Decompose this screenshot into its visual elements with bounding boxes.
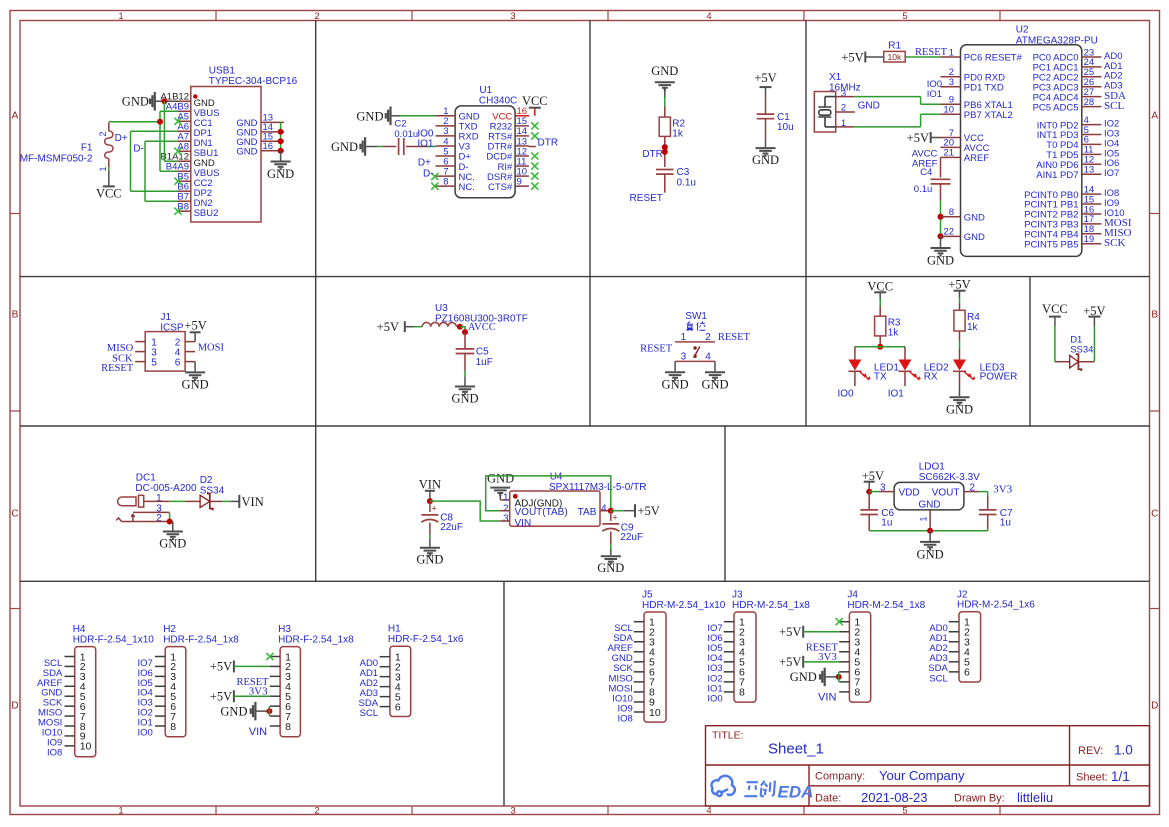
svg-text:2: 2 [705, 332, 711, 343]
svg-text:AIN1 PD7: AIN1 PD7 [1036, 170, 1078, 181]
connector DC1 DC-005-A200 [116, 472, 197, 524]
svg-text:RESET: RESET [630, 193, 663, 204]
svg-text:10k: 10k [888, 52, 902, 62]
nodes AD0..SCL (H1) [359, 658, 379, 719]
svg-text:U4: U4 [550, 471, 563, 482]
svg-text:D+: D+ [115, 133, 128, 144]
svg-text:SS34: SS34 [1070, 345, 1093, 356]
power flag +5V (pin 5) + node 3V3 [779, 651, 839, 669]
svg-text:1: 1 [98, 167, 108, 172]
ground flag GND (below C1) [752, 140, 779, 167]
no-connect X (pin 1) [836, 618, 843, 625]
resistor R4 1k [954, 310, 965, 331]
svg-text:IO0: IO0 [707, 693, 722, 704]
svg-text:C4: C4 [920, 167, 932, 178]
svg-text:Sheet:: Sheet: [1076, 772, 1108, 784]
svg-text:NC.: NC. [459, 182, 475, 193]
LED LED3 POWER [953, 360, 1017, 387]
power flag VIN (C8) [419, 477, 441, 501]
svg-text:1u: 1u [1000, 518, 1011, 529]
regulator U4 SPX1117M3-L-5-0/TR [499, 471, 646, 529]
ground flag GND (USB1 left) [122, 92, 178, 111]
svg-text:6: 6 [964, 667, 970, 679]
regulator LDO1 SC662K-3.3V [879, 461, 980, 531]
power flag +5V (above C1) [754, 71, 776, 95]
svg-text:TYPEC-304-BCP16: TYPEC-304-BCP16 [209, 76, 298, 87]
svg-text:VOUT(TAB): VOUT(TAB) [515, 507, 568, 518]
wire D+ net (DP1-DP2) [115, 131, 178, 191]
wire R2 to C3 + junctions DTR [662, 136, 668, 167]
svg-text:1k: 1k [672, 128, 684, 139]
svg-text:U2: U2 [1016, 24, 1029, 35]
capacitor C5 1uF [456, 332, 493, 370]
logo 立创EDA [712, 776, 814, 802]
connector J1 ICSP [135, 312, 195, 371]
svg-text:CH340C: CH340C [479, 96, 517, 107]
svg-text:DTR: DTR [538, 137, 559, 148]
svg-text:8: 8 [949, 207, 954, 218]
svg-text:+: + [612, 513, 617, 523]
svg-text:+5V: +5V [948, 278, 970, 292]
svg-text:5: 5 [902, 11, 907, 22]
connector H3 HDR-F-2.54_1x8 [270, 624, 354, 737]
svg-text:TITLE:: TITLE: [712, 730, 744, 742]
svg-text:GND: GND [331, 140, 358, 154]
wire C4/GND pins 8,22 + junctions [938, 201, 944, 240]
svg-text:GND: GND [182, 377, 209, 391]
svg-text:3V3: 3V3 [993, 484, 1012, 496]
ground flag GND (SW1 pin 4) [701, 361, 728, 391]
svg-text:D: D [1151, 701, 1158, 712]
connector J5 HDR-M-2.54_1x10 [634, 590, 726, 723]
svg-text:PD1 TXD: PD1 TXD [964, 83, 1004, 94]
svg-text:GND: GND [752, 153, 779, 167]
svg-text:REV:: REV: [1078, 745, 1103, 757]
svg-text:1: 1 [503, 492, 509, 503]
svg-text:1uF: 1uF [476, 357, 493, 368]
power flag +5V (U4 out) [611, 504, 660, 518]
svg-text:POWER: POWER [980, 372, 1018, 383]
svg-text:GND: GND [927, 253, 954, 267]
capacitor C9 22uF [602, 511, 643, 544]
svg-text:+5V: +5V [779, 625, 801, 639]
svg-text:6: 6 [395, 701, 401, 713]
svg-text:AVCC: AVCC [468, 322, 496, 333]
svg-text:CTS#: CTS# [488, 182, 513, 193]
wire U4 VOUT loop to TAB + junction [486, 476, 614, 514]
power flag VCC (below F1) [96, 167, 122, 201]
svg-text:Sheet_1: Sheet_1 [768, 741, 824, 758]
svg-text:VIN: VIN [515, 518, 532, 529]
svg-text:B: B [12, 310, 19, 321]
svg-text:5: 5 [151, 357, 157, 368]
svg-text:DC-005-A200: DC-005-A200 [135, 483, 197, 494]
svg-text:VCC: VCC [96, 187, 122, 201]
svg-text:+5V: +5V [841, 50, 863, 64]
svg-text:PB7 XTAL2: PB7 XTAL2 [964, 110, 1013, 121]
ground flag GND (U4 pin1) [487, 472, 514, 500]
svg-text:4: 4 [706, 806, 711, 817]
svg-text:D: D [11, 701, 18, 712]
svg-text:RESET: RESET [101, 363, 134, 374]
svg-text:DTR: DTR [642, 149, 663, 160]
svg-text:0.1u: 0.1u [677, 177, 696, 188]
svg-text:IO1: IO1 [927, 89, 942, 100]
capacitor C3 0.1u [656, 167, 696, 193]
wire/junctions U3 out to AVCC/C5 [457, 324, 468, 335]
svg-text:1: 1 [118, 11, 123, 22]
node DTR (U1 pin 13) [529, 137, 558, 148]
ground flag GND (USB1 right) [267, 151, 294, 181]
ground flag GND (C2 left) [331, 137, 377, 156]
svg-text:IO8: IO8 [47, 747, 62, 758]
wire C2 to U1 pin 4 (V3) [428, 146, 436, 148]
svg-text:GND: GND [651, 64, 678, 78]
svg-text:PCINT5 PB5: PCINT5 PB5 [1024, 239, 1078, 250]
svg-text:2: 2 [314, 806, 319, 817]
svg-text:RESET: RESET [640, 344, 673, 355]
connector H1 HDR-F-2.54_1x6 [380, 624, 464, 717]
ground flag GND (U2) [927, 236, 954, 267]
svg-text:D-: D- [133, 144, 144, 155]
power flag +5V (pin 2) [210, 660, 270, 674]
wire VCC to D1 anode [1055, 327, 1070, 362]
ground flag GND (C8) [416, 535, 443, 567]
capacitor C8 22uF [421, 501, 463, 534]
capacitor C1 10u [757, 95, 794, 140]
svg-text:C: C [11, 509, 18, 520]
svg-text:HDR-F-2.54_1x8: HDR-F-2.54_1x8 [163, 634, 239, 645]
svg-text:VCC: VCC [867, 279, 893, 293]
svg-text:SCK: SCK [1104, 237, 1125, 249]
power flag +5V (R4) [948, 278, 970, 297]
svg-text:1k: 1k [888, 328, 900, 339]
svg-text:GND: GND [220, 704, 247, 718]
title text [712, 730, 1133, 806]
node 3V3 (LDO out) [979, 484, 1013, 496]
svg-text:HDR-F-2.54_1x10: HDR-F-2.54_1x10 [73, 634, 155, 645]
svg-text:GND: GND [122, 94, 149, 108]
svg-text:+5V: +5V [907, 131, 929, 145]
title block [706, 726, 1150, 806]
svg-text:5: 5 [902, 806, 907, 817]
svg-text:+5V: +5V [210, 689, 232, 703]
svg-text:1u: 1u [881, 518, 892, 529]
svg-text:+5V: +5V [377, 320, 399, 334]
svg-text:1: 1 [919, 516, 929, 521]
svg-text:PC6 RESET#: PC6 RESET# [964, 53, 1023, 64]
svg-text:IO0: IO0 [137, 727, 152, 738]
power flag +5V (U2 VCC pin 7) [907, 131, 941, 145]
svg-text:HDR-F-2.54_1x6: HDR-F-2.54_1x6 [388, 634, 464, 645]
svg-text:SCL: SCL [1104, 100, 1124, 112]
svg-text:2: 2 [98, 132, 108, 137]
svg-text:VCC: VCC [522, 94, 548, 108]
svg-text:C3: C3 [677, 167, 690, 178]
svg-text:+: + [432, 503, 437, 513]
svg-text:GND: GND [487, 472, 514, 486]
ground flag GND (C9) [597, 544, 624, 575]
svg-text:GND: GND [790, 670, 817, 684]
ground flag GND (pins 6-7) + junction [790, 668, 842, 687]
wire DC1 pin1 to D2 [170, 500, 200, 502]
svg-text:D+: D+ [418, 158, 431, 169]
svg-text:VIN: VIN [818, 692, 836, 704]
resistor R3 1k [875, 316, 886, 336]
svg-text:HDR-M-2.54_1x8: HDR-M-2.54_1x8 [847, 600, 925, 611]
diode D2 SS34 [200, 475, 225, 510]
power flag VCC (D1) [1042, 302, 1068, 326]
svg-text:10: 10 [943, 105, 954, 116]
LED LED2 RX [899, 360, 950, 387]
svg-text:Drawn By:: Drawn By: [954, 793, 1005, 805]
svg-text:VDD: VDD [899, 487, 920, 498]
svg-text:28: 28 [1084, 97, 1095, 108]
svg-text:PC5 ADC5: PC5 ADC5 [1033, 102, 1079, 113]
svg-text:16: 16 [263, 141, 274, 152]
svg-text:IO0: IO0 [838, 388, 855, 399]
svg-text:GND: GND [917, 547, 944, 561]
svg-text:VCC: VCC [1042, 302, 1068, 316]
wire VBUS net + junction (fuse to VBUS pins) [109, 111, 178, 171]
svg-text:X1: X1 [829, 72, 842, 83]
svg-text:4: 4 [601, 503, 607, 514]
svg-text:SCL: SCL [929, 673, 947, 684]
ground flag GND (J1 pin 6) [182, 362, 209, 392]
resistor R1 10k [884, 41, 906, 62]
svg-text:3: 3 [510, 11, 515, 22]
svg-text:8: 8 [854, 687, 860, 699]
LED LED1 TX [848, 360, 899, 387]
svg-text:A: A [12, 111, 19, 122]
svg-text:EDA: EDA [778, 782, 814, 801]
svg-text:IO1: IO1 [417, 138, 434, 149]
connector J3 HDR-M-2.54_1x8 [724, 590, 810, 703]
svg-text:2021-08-23: 2021-08-23 [861, 790, 928, 805]
svg-text:J1: J1 [161, 312, 172, 323]
svg-text:HDR-F-2.54_1x8: HDR-F-2.54_1x8 [278, 634, 354, 645]
svg-text:3: 3 [841, 88, 846, 99]
diode D1 SS34 [1070, 334, 1095, 371]
svg-text:RESET: RESET [718, 332, 751, 343]
svg-text:+5V: +5V [638, 504, 660, 518]
svg-text:SCL: SCL [360, 708, 378, 719]
nodes IO7..IO0 (J3) [707, 623, 722, 704]
svg-text:+5V: +5V [210, 660, 232, 674]
svg-text:littleliu: littleliu [1017, 790, 1053, 805]
svg-text:SBU2: SBU2 [194, 208, 219, 219]
power flag +5V (D1) [1083, 304, 1105, 326]
svg-text:3V3: 3V3 [249, 685, 268, 697]
svg-text:SS34: SS34 [200, 485, 225, 496]
svg-text:19: 19 [1084, 234, 1095, 245]
ground flag GND (DC1) [159, 522, 186, 551]
svg-text:GND: GND [918, 499, 940, 510]
svg-text:Date:: Date: [815, 793, 841, 805]
svg-text:8: 8 [285, 721, 291, 733]
svg-text:C2: C2 [394, 119, 406, 130]
svg-text:3V3: 3V3 [818, 651, 837, 663]
svg-text:U1: U1 [479, 85, 492, 96]
ground flag GND (SW1 pin 3) [662, 361, 689, 391]
svg-text:4: 4 [706, 11, 711, 22]
ground flag GND (C5) [451, 371, 478, 406]
svg-text:IO1: IO1 [888, 388, 905, 399]
power flag VCC (R3) [867, 279, 893, 299]
svg-text:R1: R1 [888, 41, 901, 52]
svg-text:1: 1 [118, 806, 123, 817]
svg-text:1.0: 1.0 [1114, 743, 1133, 758]
wire R4 to LED3 [959, 331, 961, 360]
svg-text:VIN: VIN [242, 495, 264, 509]
svg-text:GND: GND [964, 232, 985, 243]
svg-text:GND: GND [236, 147, 257, 158]
svg-text:1k: 1k [967, 322, 979, 333]
power flag +5V (J1 pin 2) [184, 319, 206, 342]
svg-text:DC1: DC1 [136, 472, 156, 483]
svg-text:22uF: 22uF [620, 532, 643, 543]
wire GND to R2 [664, 97, 666, 117]
svg-text:10: 10 [649, 707, 661, 719]
svg-text:GND: GND [662, 378, 689, 392]
svg-text:10: 10 [80, 741, 92, 753]
svg-text:GND: GND [946, 403, 973, 417]
svg-text:A: A [1151, 111, 1158, 122]
power flag +5V (U3) [377, 320, 414, 334]
svg-text:GND: GND [356, 109, 383, 123]
svg-text:8: 8 [739, 687, 745, 699]
wire +5V to R4 [959, 297, 961, 310]
power flag VCC (U1 pin 16) [522, 94, 548, 116]
svg-text:C: C [1151, 509, 1158, 520]
power flag +5V (pin 5) + node 3V3 [210, 685, 270, 703]
svg-text:B: B [1151, 310, 1158, 321]
wire X1 pin3 to U2 XTAL1 [836, 97, 941, 105]
svg-text:IO7: IO7 [1104, 168, 1119, 179]
switch SW1 复位 [675, 311, 715, 363]
capacitor C7 1u [979, 492, 1013, 531]
svg-text:VIN: VIN [419, 477, 441, 491]
nodes AD0..SCL (J2) [928, 623, 948, 684]
svg-text:+5V: +5V [184, 319, 206, 333]
svg-text:1: 1 [681, 332, 687, 343]
wire +5V junction to LDO pin3 [866, 489, 879, 495]
power flag +5V (LDO1) [862, 469, 884, 492]
svg-text:21: 21 [943, 148, 954, 159]
ground flag GND (LED3) [946, 386, 973, 417]
wire D- net (DN1-DN2) [133, 141, 178, 201]
ground flag GND (above R2) [651, 64, 678, 97]
svg-text:0.1u: 0.1u [914, 184, 933, 195]
nodes SCL..IO8 (J5) [607, 623, 633, 724]
power flag VIN (D2) [222, 495, 263, 509]
svg-text:GND: GND [267, 167, 294, 181]
mcu U2 ATMEGA328P-PU [941, 24, 1132, 256]
svg-text:1: 1 [949, 47, 954, 58]
connector H2 HDR-F-2.54_1x8 [155, 624, 239, 737]
svg-text:22uF: 22uF [440, 522, 463, 533]
resistor R2 1k [659, 117, 670, 136]
svg-text:SC662K-3.3V: SC662K-3.3V [919, 472, 980, 483]
svg-text:LDO1: LDO1 [919, 461, 946, 472]
wire VIN net to U4 pin3 + junction [427, 498, 500, 521]
wire LDO bottom rail + junction [869, 528, 988, 534]
wire + junctions GND (USB1 pins 13-16) [278, 122, 284, 153]
capacitor C6 1u [860, 492, 894, 531]
svg-text:SW1: SW1 [685, 311, 707, 322]
svg-text:6: 6 [175, 357, 181, 368]
wire R1 to U2 pin1, node RESET [905, 47, 947, 58]
svg-text:HDR-M-2.54_1x8: HDR-M-2.54_1x8 [732, 600, 810, 611]
svg-text:10u: 10u [777, 122, 794, 133]
connector J2 HDR-M-2.54_1x6 [949, 589, 1035, 682]
wire U2 AREF to C4 [940, 157, 942, 177]
svg-text:HDR-M-2.54_1x6: HDR-M-2.54_1x6 [957, 600, 1035, 611]
svg-text:3: 3 [949, 77, 954, 88]
ground flag GND (LDO1) [917, 531, 944, 562]
svg-text:U3: U3 [435, 303, 448, 314]
svg-text:+5V: +5V [779, 655, 801, 669]
svg-text:GND: GND [159, 537, 186, 551]
svg-text:HDR-M-2.54_1x10: HDR-M-2.54_1x10 [642, 600, 726, 611]
svg-text:TX: TX [874, 372, 887, 383]
svg-text:VOUT: VOUT [932, 487, 960, 498]
svg-text:3: 3 [503, 514, 509, 525]
svg-text:TAB: TAB [578, 507, 597, 518]
svg-text:F1: F1 [81, 142, 93, 153]
wire R3 to LED1/LED2 + junction [855, 336, 905, 360]
svg-text:2: 2 [156, 513, 162, 524]
fuse F1 MF-MSMF050-2 [20, 123, 113, 172]
svg-text:+5V: +5V [862, 469, 884, 483]
no-connect X (pin 1) [266, 653, 273, 660]
ground flag GND (U1 pin 1) [356, 107, 400, 126]
svg-text:GND: GND [701, 378, 728, 392]
svg-text:AREF: AREF [964, 153, 990, 164]
svg-text:9: 9 [517, 176, 522, 187]
connector H4 HDR-F-2.54_1x10 [65, 624, 155, 757]
svg-text:13: 13 [1084, 165, 1095, 176]
svg-text:+5V: +5V [754, 71, 776, 85]
crystal X1 16MHz [814, 72, 860, 132]
svg-text:MF-MSMF050-2: MF-MSMF050-2 [20, 153, 93, 164]
svg-text:IO8: IO8 [617, 713, 632, 724]
svg-text:D-: D- [423, 169, 434, 180]
svg-text:GND: GND [597, 561, 624, 575]
inductor U3 PZ1608U300-3R0TF [414, 303, 528, 327]
nodes IO7..IO0 (H2) [137, 658, 152, 739]
wire VCC to R3 [879, 299, 881, 316]
svg-text:Company:: Company: [815, 771, 865, 783]
power flag +5V (R1) [841, 50, 883, 64]
capacitor C2 0.01u [377, 119, 428, 155]
svg-text:MOSI: MOSI [198, 342, 225, 353]
svg-text:4: 4 [705, 352, 711, 363]
svg-text:GND: GND [858, 101, 880, 112]
svg-text:GND: GND [964, 212, 985, 223]
ic U1 CH340C (USB-UART) [431, 85, 538, 198]
ground flag GND (pins 6-7) + junction [220, 702, 272, 721]
wire X1 pin1 to U2 XTAL2 [836, 114, 941, 127]
svg-text:RX: RX [924, 372, 938, 383]
power flag +5V (pin 2) [779, 625, 839, 639]
capacitor C4 0.1u [914, 167, 951, 201]
svg-text:8: 8 [443, 176, 448, 187]
svg-text:22: 22 [943, 227, 954, 238]
wire U1 pin1 to GND [400, 115, 436, 117]
svg-text:C1: C1 [777, 112, 790, 123]
svg-text:1: 1 [156, 493, 162, 504]
